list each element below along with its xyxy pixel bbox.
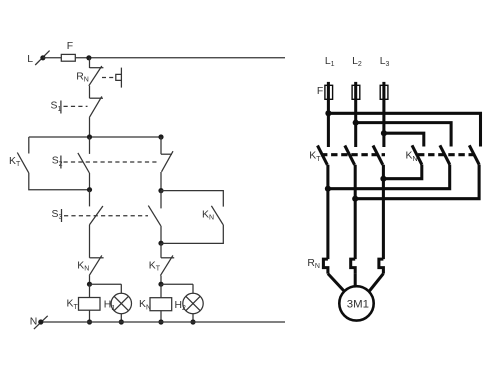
contactor KT pole 2 — [345, 146, 355, 165]
contactor KT pole 3 — [373, 146, 383, 165]
overload heater RN phase3 — [379, 259, 384, 274]
lamp H2 — [175, 293, 204, 313]
dashed linkage KT — [321, 153, 385, 156]
wire — [90, 283, 122, 285]
wire — [161, 225, 223, 244]
svg-text:RN: RN — [76, 71, 89, 83]
pushbutton S2 (NO) — [52, 153, 90, 173]
fuse F — [61, 41, 75, 61]
dashed linkage KN — [418, 153, 478, 156]
coil KN — [139, 298, 172, 312]
wire — [28, 137, 30, 154]
contact KN (NO mirrored) — [202, 206, 223, 225]
wire — [160, 191, 162, 209]
coil KT — [67, 298, 101, 311]
wire L1 down — [327, 99, 330, 147]
wire branch to KN contact — [161, 191, 223, 207]
wire KN pole3 out to phase2 line — [355, 165, 479, 199]
contact KN (NO) — [77, 255, 103, 275]
pushbutton S3 (NC mirrored) — [148, 206, 161, 226]
svg-text:3M1: 3M1 — [347, 299, 369, 311]
svg-text:KN: KN — [139, 299, 151, 311]
switch on L line — [35, 51, 49, 65]
wire L3 down — [382, 99, 385, 147]
junction — [325, 110, 331, 116]
svg-text:KN: KN — [77, 260, 89, 272]
dashed link RN — [102, 77, 114, 79]
contact KT (NO, seal-in) — [9, 153, 29, 173]
wire — [89, 310, 91, 322]
contactor KN pole 3 — [469, 145, 479, 164]
junction — [352, 196, 358, 202]
svg-text:H1: H1 — [104, 300, 116, 312]
fuse F L1 — [317, 82, 333, 99]
svg-text:S3: S3 — [52, 209, 63, 221]
wire — [89, 137, 91, 154]
junction — [158, 134, 163, 139]
wire feed L2 to KN c2 — [356, 123, 451, 147]
wire to motor 2 — [354, 274, 357, 287]
wire — [160, 311, 162, 322]
junction — [380, 176, 386, 182]
svg-text:F: F — [67, 41, 73, 52]
junction — [158, 188, 163, 193]
node row 1 — [29, 136, 161, 138]
junction — [87, 187, 92, 192]
svg-text:L3: L3 — [380, 56, 390, 68]
wire — [89, 118, 91, 137]
pushbutton S3 (NO) — [52, 206, 103, 225]
junction — [158, 282, 163, 287]
wire — [192, 314, 194, 322]
contactor KN pole 2 — [440, 145, 450, 164]
reset button symbol — [116, 68, 122, 88]
wire — [89, 284, 91, 297]
wire — [89, 190, 91, 207]
wire L2 down — [354, 99, 357, 147]
overload heater RN phase1 — [307, 258, 328, 274]
junction — [158, 319, 163, 324]
wire — [192, 284, 194, 293]
wire — [89, 58, 91, 68]
wire — [89, 86, 91, 98]
contactor KT pole 1 — [309, 146, 327, 165]
svg-text:N: N — [30, 316, 38, 327]
wire KN pole1 out to phase3 line — [383, 165, 421, 179]
junction — [190, 319, 195, 324]
svg-text:S1: S1 — [51, 101, 62, 113]
svg-text:KT: KT — [67, 299, 79, 311]
dashed link S3 — [64, 215, 148, 217]
motor 3M1 — [339, 286, 373, 320]
junction — [325, 186, 331, 192]
contact KT (NO) — [149, 255, 174, 275]
wire — [120, 284, 122, 293]
wire — [160, 243, 162, 258]
fuse F L3 — [380, 82, 388, 99]
wire — [120, 314, 122, 322]
wire — [89, 276, 91, 285]
wire — [160, 226, 162, 243]
contactor KN pole 1 — [406, 145, 422, 164]
wire to motor 3 — [369, 274, 383, 292]
wire — [160, 137, 162, 154]
wire — [160, 284, 162, 298]
wire KN pole2 out to phase1 line — [328, 165, 450, 189]
bottom rail N — [41, 321, 285, 323]
svg-text:KN: KN — [202, 209, 214, 221]
wire top rail — [75, 57, 285, 59]
pushbutton S1 (NC) — [51, 96, 104, 117]
thermal contact RN (NC) — [76, 66, 103, 86]
junction — [119, 319, 124, 324]
overload heater RN phase2 — [351, 259, 356, 274]
svg-text:F: F — [317, 86, 323, 97]
junction — [87, 319, 92, 324]
svg-text:KT: KT — [9, 156, 21, 168]
svg-text:RN: RN — [307, 258, 320, 270]
svg-text:KT: KT — [149, 260, 161, 272]
junction — [87, 134, 92, 139]
wire KT pole3 out — [382, 165, 385, 259]
svg-text:L1: L1 — [325, 56, 335, 68]
dashed link S2 — [64, 161, 159, 163]
lamp H1 — [104, 293, 132, 313]
wire to motor 1 — [328, 274, 345, 292]
svg-text:H2: H2 — [175, 300, 187, 312]
dashed link S1 — [64, 105, 88, 107]
wire — [43, 57, 61, 59]
junction — [158, 241, 163, 246]
wire feed L3 to KN c1 — [384, 133, 424, 146]
wire — [160, 172, 162, 191]
wire — [29, 173, 90, 190]
wire — [160, 276, 162, 285]
pushbutton S2 (NC) — [161, 151, 173, 172]
wire feed L1 to KN c3 — [328, 113, 480, 146]
svg-text:L2: L2 — [352, 56, 362, 68]
switch on N line — [34, 316, 48, 329]
fuse F L2 — [352, 82, 360, 99]
wire KT pole2 out — [354, 165, 357, 259]
wire — [89, 225, 91, 258]
wire — [89, 173, 91, 190]
svg-text:L: L — [27, 54, 33, 65]
wire — [161, 283, 193, 285]
junction — [381, 130, 387, 136]
junction — [86, 55, 91, 60]
junction — [353, 120, 359, 126]
wire KT pole1 out — [326, 165, 329, 259]
junction — [87, 282, 92, 287]
